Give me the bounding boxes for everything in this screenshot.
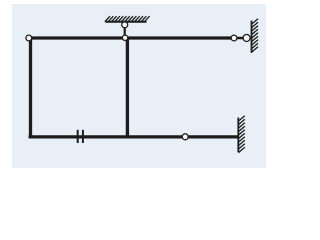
pin joint: top-left corner	[26, 35, 32, 41]
link: top bar (left pivot to right end)	[29, 36, 234, 39]
canvas background	[12, 4, 266, 168]
link: middle vertical bar	[126, 38, 129, 137]
pin joint: top bar right end	[231, 35, 237, 41]
pin joint: right wall pivot	[243, 35, 250, 42]
link: stem from top ground pivot to top bar	[124, 25, 126, 38]
ground: top-right hatched wall	[252, 19, 259, 53]
link: bottom bar	[29, 135, 239, 138]
link: short coupler from top bar end to right wall pivot	[234, 37, 247, 40]
ground: top-middle hatched support	[105, 16, 150, 22]
link: left vertical bar	[29, 36, 32, 138]
pin joint: on bottom bar	[182, 134, 188, 140]
slider double-tick on bottom bar	[78, 130, 83, 143]
ground: bottom-right hatched wall	[238, 116, 245, 153]
pin joint: top ground pivot	[122, 22, 128, 28]
pin joint: middle link on top bar	[122, 35, 127, 40]
